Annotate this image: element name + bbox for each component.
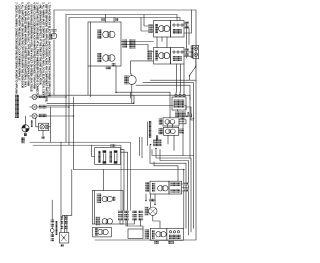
wire cluster to bake box: [141, 226, 144, 229]
wire horiz trio right 82: [143, 83, 193, 156]
wire L1 outer loop (border): [54, 10, 196, 240]
indicator light DS1: [31, 119, 49, 140]
wire mid cross 143: [30, 142, 131, 210]
label box bottom B: [106, 66, 111, 69]
wire box2 pin right 1: [121, 150, 124, 211]
label sensor vertical B: [156, 136, 159, 145]
label wire L2: [39, 114, 47, 118]
wire TB mid run: [37, 106, 69, 108]
oven element assembly BR2 element: [150, 228, 167, 240]
wire TB mid pair right: [47, 106, 186, 111]
junction dots main runs: [65, 91, 184, 170]
relay DLB lower cluster: [175, 107, 194, 120]
surface unit switch assembly TR1 switch: [171, 21, 185, 38]
label TR1 left: [149, 24, 153, 33]
wire element box drop 2: [89, 66, 91, 97]
wire element box drop 3: [116, 66, 170, 92]
bottom plug stack B: [59, 217, 68, 247]
surface unit switch assembly TR2 switch: [171, 48, 185, 65]
wire N run top: [66, 15, 177, 143]
label BR1 left: [145, 182, 149, 192]
terminal block TB1 screw 1: [32, 95, 37, 100]
connector plug P1 on left border: [50, 30, 57, 40]
wire TB upper pair right: [47, 95, 190, 100]
bake element outline box: [128, 229, 143, 239]
oven elements box bottom left upper: [92, 191, 123, 225]
terminal block TB1 screw 3: [32, 114, 37, 119]
ground symbol chassis: [22, 116, 29, 136]
switch contact diagonal: [189, 59, 197, 81]
oven vent component 2: [159, 127, 184, 135]
wire vent drops: [167, 92, 174, 150]
oven lamp assembly: [124, 61, 154, 103]
wire element box feeds top: [106, 15, 115, 23]
wire box to switches 1: [121, 42, 154, 52]
wire horiz trio right 80: [151, 79, 197, 81]
surface unit switch assembly TR2 element: [154, 48, 171, 65]
surface element upper (1 of 2): [98, 30, 115, 40]
label box top feeds: [101, 18, 104, 21]
terminal block TB1 screw 2: [32, 105, 37, 110]
wire TR2 drops: [177, 64, 185, 92]
label connector pair A: [123, 40, 128, 49]
oven element assembly BR2 switch: [167, 228, 184, 240]
wire mid cross 145: [33, 145, 121, 210]
label box bottom A: [112, 63, 116, 66]
junction cluster mid: [150, 140, 162, 150]
label wire L1: [39, 95, 47, 99]
connector cluster bottom A: [118, 210, 129, 220]
terminal block right TB2: [184, 45, 199, 58]
label wire N: [39, 105, 47, 109]
wire cluster drops: [120, 219, 141, 226]
wire box2 feeds: [92, 145, 95, 156]
wire TR1 right pins: [184, 10, 192, 58]
surface element lower (2 of 2): [98, 53, 115, 63]
label ground: [21, 137, 24, 143]
broil element unit 1: [97, 194, 116, 204]
wire plugB feeds: [63, 170, 72, 233]
broil element unit 3: [95, 228, 108, 236]
svg-text:7. CHECK ALL WIRING CONNECTION: 7. CHECK ALL WIRING CONNECTIONS BEFORE R…: [14, 2, 17, 97]
oven elements box left top: [88, 22, 121, 66]
connector cluster bottom B: [132, 210, 143, 220]
wire box2 pin right 2: [121, 152, 128, 226]
wire lamp to L2: [49, 107, 51, 142]
wire left vertical drop C: [73, 97, 75, 170]
NOTES TEXT COLUMNS: [14, 2, 50, 102]
label BR2 left: [145, 229, 150, 239]
wire element box drop 1: [87, 66, 89, 95]
wire riser bundle A: [139, 137, 141, 155]
motor M2 convection fan: [145, 199, 160, 229]
wire drop to bottom plug: [60, 142, 62, 232]
label BR1 right stubs: [182, 183, 189, 192]
bottom plug stack A: [50, 200, 57, 241]
bake broil switch box: [95, 144, 121, 164]
oven element assembly BR1 switch: [169, 181, 182, 194]
label sensor vertical A: [149, 121, 152, 138]
wire relay drops: [178, 110, 184, 156]
wire TB L2 run: [37, 115, 74, 117]
oven element assembly BR1 element: [150, 181, 169, 194]
oven elements box bottom left lower: [93, 227, 112, 237]
wire mid horiz 103: [47, 102, 134, 104]
wire L2 run top: [69, 18, 180, 146]
wire riser bundle B: [141, 137, 143, 158]
wire drop to lower oven box: [103, 170, 105, 191]
broil element unit 2: [96, 217, 113, 226]
label TR1 right stubs: [185, 22, 189, 29]
wire horiz trio right 85: [136, 85, 190, 158]
wire TB to N run: [37, 96, 66, 98]
label TR2 left: [147, 50, 152, 60]
wire BR1 bottom drops: [146, 194, 155, 207]
wire TR1 to TR2 verticals: [141, 15, 167, 48]
wire bundle fan right: [74, 146, 194, 236]
surface unit switch assembly TR1 element: [154, 21, 171, 38]
wire mid right verticals: [131, 92, 135, 103]
relay DLB: [172, 92, 186, 110]
wire TB left stubs: [30, 97, 33, 116]
label terminal block vertical: [15, 95, 19, 118]
label connector pair B: [129, 40, 136, 49]
oven vent component: [159, 118, 179, 126]
label TR2 right stubs: [185, 49, 189, 56]
label vent right stubs: [179, 116, 186, 123]
label BR2 bottom stubs: [154, 241, 159, 244]
wire L1 outer loop lower left: [53, 40, 55, 95]
